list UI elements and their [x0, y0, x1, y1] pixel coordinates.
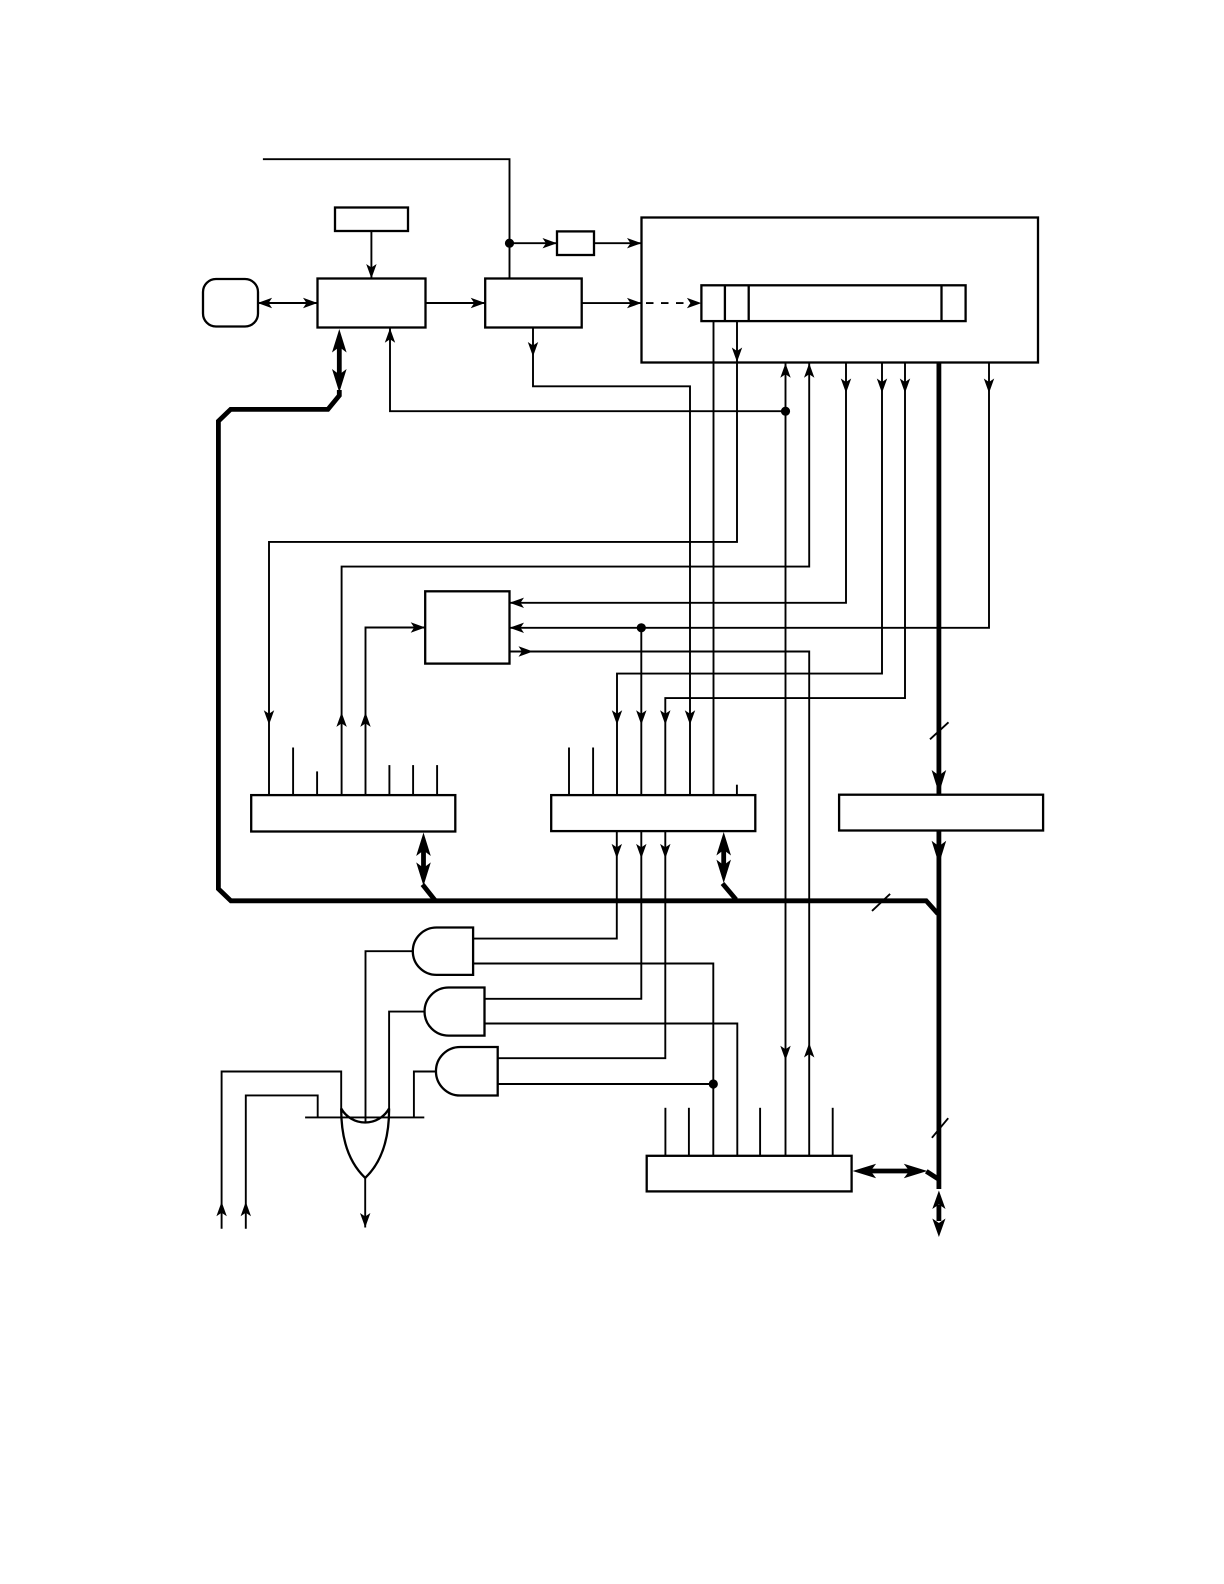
wire G cell1 to middle mux pin 7	[713, 321, 715, 795]
wire left mux pin 5 up to H left input	[366, 628, 426, 796]
wire node to divider box	[510, 242, 558, 244]
wire AND1 input 2 to bottom mux pin 3	[473, 964, 713, 1156]
box K right register	[839, 795, 1043, 831]
pin stub I2	[292, 748, 294, 796]
pin stub J1	[568, 748, 570, 796]
box D register 2	[485, 279, 582, 328]
wire F bottom to H input 2	[510, 363, 990, 628]
wire external input 1 to OR input b	[222, 1072, 342, 1229]
pin stub I3	[316, 771, 318, 795]
wire external input 2 to OR input a	[246, 1095, 318, 1228]
box E prescaler (small)	[557, 231, 594, 255]
box B buffer register 1	[318, 279, 426, 328]
bus double arrow bottom mux right	[867, 1171, 939, 1180]
gate OR (pointing down)	[305, 1116, 424, 1118]
wire top free line to node above register 2	[263, 159, 510, 278]
pin stub L5	[759, 1108, 761, 1156]
wire F bottom to H input 1	[510, 363, 847, 603]
divider G3	[940, 285, 942, 321]
divider G1	[724, 285, 726, 321]
node junction dot mid feedback	[781, 407, 790, 416]
bus width slash 3	[932, 1118, 948, 1138]
bus width slash 2	[872, 894, 890, 911]
bus double arrow below left mux	[423, 849, 435, 900]
node junction dot on H input 2 line	[637, 623, 646, 632]
box H control logic (middle)	[425, 591, 509, 663]
wire D bottom to middle mux pin 6	[533, 328, 690, 796]
wire C to B arrow down	[370, 231, 372, 279]
bus double arrow below middle mux	[723, 848, 737, 900]
wire F bottom to middle mux pin 3	[617, 363, 882, 796]
box G shift register (long)	[701, 285, 965, 321]
wire middle mux out 1 to AND1 input 1	[473, 831, 617, 939]
wire A-B bidirectional arrow	[258, 302, 318, 304]
box J middle mux	[551, 795, 755, 831]
wire left mux pin4 up to F bottom	[342, 363, 810, 796]
box I left mux	[251, 795, 455, 831]
wire AND1 output to OR input c	[366, 951, 413, 1122]
pin stub L2	[688, 1108, 690, 1156]
box L bottom mux	[647, 1156, 852, 1192]
wire OR output	[364, 1178, 366, 1228]
node junction dot on bottom mux pin 3 line	[709, 1079, 718, 1088]
pin stub L8	[832, 1108, 834, 1156]
data bus thick path	[218, 390, 938, 914]
pin stub J8	[736, 785, 738, 795]
wire B to D arrow	[426, 302, 486, 304]
wire F bottom to middle mux pin 5	[665, 363, 905, 796]
pin stub J2	[592, 748, 594, 796]
wire G cell2 to left mux pin 1	[269, 321, 737, 795]
gate AND1	[413, 928, 473, 975]
wire branch dot to AND3 input 2	[498, 1083, 714, 1085]
gate AND2	[425, 988, 485, 1036]
wire vertical F-bottom to bottom mux (through dot)	[785, 363, 787, 1156]
pin pad P (rounded box A)	[203, 279, 258, 327]
pin stub I8	[436, 765, 438, 795]
bus thick vertical right	[937, 363, 942, 1190]
wire AND2 output to OR input d	[389, 1012, 425, 1109]
wire AND2 input 2 to bottom mux pin 4	[485, 1024, 738, 1156]
wire AND3 output to OR input e	[414, 1072, 436, 1118]
box C control register (top small)	[335, 208, 408, 232]
node junction dot on clock line	[505, 239, 514, 248]
wire middle mux out 2 to AND2 input 1	[485, 831, 642, 999]
pin stub L1	[664, 1108, 666, 1156]
pin stub I7	[412, 765, 414, 795]
gate AND3	[436, 1047, 498, 1096]
pin stub I6	[388, 765, 390, 795]
box F large block	[642, 218, 1039, 363]
bus width slash 1	[930, 722, 949, 739]
wire H output to bottom mux pin 7	[510, 652, 810, 1156]
wire branch from dot to middle mux pin 4	[640, 628, 642, 795]
wire divider box to big block	[594, 242, 642, 244]
bus double arrow bottom end	[937, 1205, 942, 1221]
wire middle mux out 3 to AND3 input 1	[498, 831, 666, 1058]
wire D to F arrow	[582, 302, 642, 304]
wire B bottom feedback to node dot	[390, 328, 786, 412]
wire dashed arrow inside F to shift register	[646, 302, 686, 304]
divider G2	[748, 285, 750, 321]
bus double arrow below B	[337, 346, 342, 376]
